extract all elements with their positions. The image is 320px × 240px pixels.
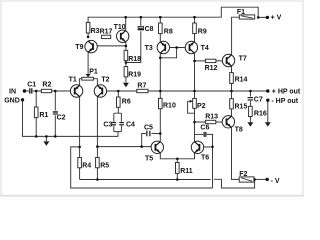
node R5 bottom rail	[96, 178, 99, 181]
wire: main output rail T2 base to +HP out	[107, 90, 267, 92]
svg-text:T5: T5	[145, 156, 153, 163]
resistor R3	[86, 22, 90, 33]
resistor R4	[78, 158, 82, 168]
svg-text:C3: C3	[103, 121, 112, 128]
node R9 top rail	[193, 16, 196, 19]
resistor R12	[205, 59, 216, 62]
resistor R5	[96, 158, 100, 168]
svg-text:F1: F1	[237, 9, 245, 16]
wire: P2 wiper strap	[188, 101, 195, 113]
resistor R13	[205, 120, 215, 123]
wire: C6 right lead and T6 base column down to feedback line	[206, 134, 212, 188]
resistor R16	[249, 106, 253, 116]
svg-text:F2: F2	[239, 171, 247, 178]
wire: T1 emitter to P1 left end	[80, 79, 82, 86]
capacitor C1	[29, 88, 33, 94]
ground (below R19)	[123, 83, 129, 87]
resistor R14	[230, 73, 234, 84]
capacitor C4	[119, 122, 124, 126]
svg-text:R5: R5	[100, 162, 109, 169]
wire: T4 collector / P2 column down to T6 collector	[194, 53, 196, 142]
transistor T1	[70, 85, 82, 97]
wire: ground stem near input	[45, 136, 47, 141]
svg-text:+ V: + V	[271, 15, 282, 22]
wire: T6 base lead	[204, 146, 213, 148]
wire: F2 right lead to -V terminal	[254, 178, 266, 180]
svg-text:R10: R10	[163, 102, 176, 109]
svg-text:R19: R19	[128, 72, 141, 79]
node gnd stem	[45, 135, 48, 138]
potentiometer P2	[193, 98, 197, 108]
svg-text:- HP out: - HP out	[271, 98, 298, 105]
wire: +V top rail (R3 top to F1 loop to +V terminal)	[88, 7, 267, 37]
wire: C2 column	[54, 91, 56, 136]
wire: R1 column	[35, 91, 37, 136]
node C8-R18/R19	[125, 61, 128, 64]
svg-text:T7: T7	[239, 55, 247, 62]
wire: R13 leads	[195, 121, 223, 123]
terminal +HP out	[266, 89, 269, 92]
transistor T2	[94, 85, 106, 97]
svg-text:R7: R7	[137, 83, 146, 90]
node C5 left rail	[140, 145, 143, 148]
transistor T3	[157, 41, 169, 53]
wire: R11 column to bottom rail	[176, 159, 178, 180]
svg-text:T4: T4	[201, 45, 209, 52]
svg-text:IN: IN	[9, 89, 16, 96]
wire: -HP out terminal down to ground	[267, 100, 269, 122]
svg-text:C8: C8	[145, 26, 154, 33]
svg-text:R15: R15	[235, 103, 248, 110]
node C8 top rail	[140, 16, 143, 19]
node T6 base	[211, 146, 214, 149]
transistor T4	[185, 41, 197, 53]
svg-text:R17: R17	[100, 28, 113, 35]
wire: T5/T6 emitter bar to R11	[160, 153, 194, 159]
transistor T9	[85, 40, 97, 52]
wire: C6 left lead	[195, 133, 204, 135]
svg-text:C2: C2	[57, 114, 66, 121]
transistor T7	[222, 54, 234, 66]
ground (below -HP out)	[265, 122, 271, 126]
node R13-P2 column	[193, 121, 196, 124]
wire: R12 leads (T4 column to T7 base)	[195, 60, 223, 62]
capacitor C7	[247, 97, 253, 102]
node T3 collector strap	[159, 57, 162, 60]
resistor R7	[137, 89, 148, 92]
wire: R15 column output rail to T8 collector	[231, 91, 233, 116]
svg-text:T2: T2	[101, 77, 109, 84]
wire: C8 column from rail down, left to R18/R19 junction	[126, 17, 141, 62]
svg-text:T1: T1	[69, 77, 77, 84]
ground (input rail)	[43, 141, 49, 145]
svg-text:R11: R11	[180, 168, 193, 175]
svg-text:R1: R1	[39, 112, 48, 119]
svg-text:R16: R16	[254, 110, 267, 117]
node C7 rail	[249, 90, 252, 93]
node R3-R17-T9	[87, 36, 90, 39]
resistor R2	[41, 89, 51, 92]
node R6/main	[117, 90, 120, 93]
svg-text:R2: R2	[42, 81, 51, 88]
svg-text:C7: C7	[254, 96, 263, 103]
resistor R8	[159, 23, 163, 34]
svg-text:R12: R12	[205, 65, 218, 72]
wire: feedback branch (T1 collector) down and along bottom to T6 base column	[71, 147, 213, 188]
wire: T3 collector-base strap box	[160, 48, 176, 58]
resistor R11	[176, 163, 180, 174]
node T2 collector-T5 rail	[96, 145, 99, 148]
fuse F2	[239, 177, 254, 182]
node R1/main	[35, 90, 38, 93]
fuse F1	[239, 15, 254, 19]
wire: GND column and ground rail	[23, 101, 119, 137]
svg-text:R8: R8	[164, 29, 173, 36]
wire: input wire IN to T1 base	[24, 90, 70, 92]
node R1 gnd rail	[35, 135, 38, 138]
terminal IN	[23, 89, 26, 92]
wire: F1 left lead down to T7 collector	[232, 17, 240, 55]
node R12-T4 column	[193, 60, 196, 63]
wire: T10 collector to top rail	[125, 17, 127, 31]
resistor R10	[159, 98, 163, 108]
ground (below R16)	[247, 122, 253, 126]
wire: T9 emitter down to P1 wiper	[87, 52, 89, 77]
node F2 right	[253, 178, 256, 181]
svg-text:T9: T9	[75, 44, 83, 51]
node F1 right	[257, 16, 260, 19]
wire: T9 base to T10 emitter junction	[96, 45, 126, 47]
node C2/main	[54, 90, 57, 93]
transistor T5	[151, 141, 163, 153]
wire: T8 emitter down to F2 left end	[232, 127, 240, 179]
wire: T7 emitter through R14 to output rail	[231, 66, 233, 91]
potentiometer P1	[82, 77, 94, 80]
resistor R9	[193, 23, 197, 34]
node T4-P2 rail	[193, 90, 196, 93]
transistor T8	[222, 116, 234, 128]
transistor T6	[191, 141, 203, 153]
svg-text:+ HP out: + HP out	[272, 89, 301, 96]
svg-text:T6: T6	[201, 155, 209, 162]
svg-text:C5: C5	[144, 125, 153, 132]
resistor R15	[230, 99, 234, 109]
terminal -V	[266, 178, 269, 181]
svg-text:GND: GND	[4, 97, 20, 104]
svg-text:- V: - V	[271, 178, 280, 185]
wire: C5 right lead to R10 column	[151, 133, 160, 135]
svg-text:T10: T10	[114, 24, 126, 31]
svg-text:R4: R4	[82, 162, 91, 169]
resistor R6	[117, 97, 121, 107]
svg-text:R13: R13	[205, 113, 218, 120]
wire: C5 left lead down to T5 base rail	[142, 134, 147, 147]
node T3/T4 base	[175, 46, 178, 49]
node R8 top rail	[159, 16, 162, 19]
svg-text:R9: R9	[198, 29, 207, 36]
terminal +V	[266, 16, 269, 19]
svg-text:T3: T3	[145, 45, 153, 52]
resistor R19	[124, 67, 128, 77]
capacitor C6	[203, 132, 207, 138]
wire: P1 right end to T2 emitter	[93, 79, 97, 86]
resistor R18	[124, 50, 128, 60]
node T1 collector-feedback	[78, 146, 81, 149]
svg-text:T8: T8	[235, 127, 243, 134]
wire: C3/C4 parallel loop	[114, 113, 122, 136]
wire: R10 column (output rail through C5 junction to T5 collector)	[159, 91, 161, 142]
svg-text:C1: C1	[27, 81, 36, 88]
node R11 bottom rail	[176, 178, 179, 181]
wire: R4 bottom lead	[79, 168, 81, 180]
svg-text:C4: C4	[126, 121, 135, 128]
wire: T3/T4 base wire	[169, 47, 187, 49]
wire: R8 top lead to rail	[159, 17, 161, 42]
resistor R1	[34, 107, 38, 118]
wire: R6 column from main wire	[117, 91, 119, 113]
node T10 emitter-R18	[125, 45, 128, 48]
svg-text:R6: R6	[122, 98, 131, 105]
terminal GND	[21, 98, 24, 101]
node C2 gnd rail	[54, 135, 57, 138]
wire: R9 top lead to rail	[194, 17, 196, 42]
svg-text:R18: R18	[128, 56, 141, 63]
wire: T2 collector column to R5	[96, 96, 98, 157]
svg-text:C6: C6	[200, 125, 209, 132]
wire: R5 bottom lead	[96, 168, 98, 180]
node emitters-R11	[176, 158, 179, 161]
svg-text:R3: R3	[91, 28, 100, 35]
svg-text:P1: P1	[89, 69, 98, 76]
wire: T5 base rail from T2 column	[97, 146, 151, 148]
transistor T10	[117, 30, 129, 42]
capacitor C8	[137, 26, 144, 31]
svg-text:P2: P2	[197, 103, 206, 110]
capacitor C5	[146, 130, 152, 136]
terminal -HP out	[266, 99, 269, 102]
node C5-R10 column	[159, 132, 162, 135]
wire: C7 column from output rail to R16	[249, 91, 251, 106]
node R7-R10-T3	[159, 90, 162, 93]
wire: bottom rail with hop over T6 base column, to F2 right end	[80, 179, 255, 188]
wire: R18/R19 column (T10 emitter junction to ground arrow)	[125, 42, 127, 83]
capacitor C2	[52, 111, 58, 116]
capacitor C3	[111, 122, 116, 126]
wire: T1 collector column to R4	[79, 96, 81, 157]
wire: R16 bottom lead to ground	[249, 117, 251, 123]
node T10 top rail	[124, 16, 127, 19]
svg-text:R14: R14	[235, 77, 248, 84]
resistor R17	[102, 35, 111, 38]
wire: T3 collector column down to output rail	[159, 53, 161, 91]
node R14-R15 rail	[230, 90, 233, 93]
